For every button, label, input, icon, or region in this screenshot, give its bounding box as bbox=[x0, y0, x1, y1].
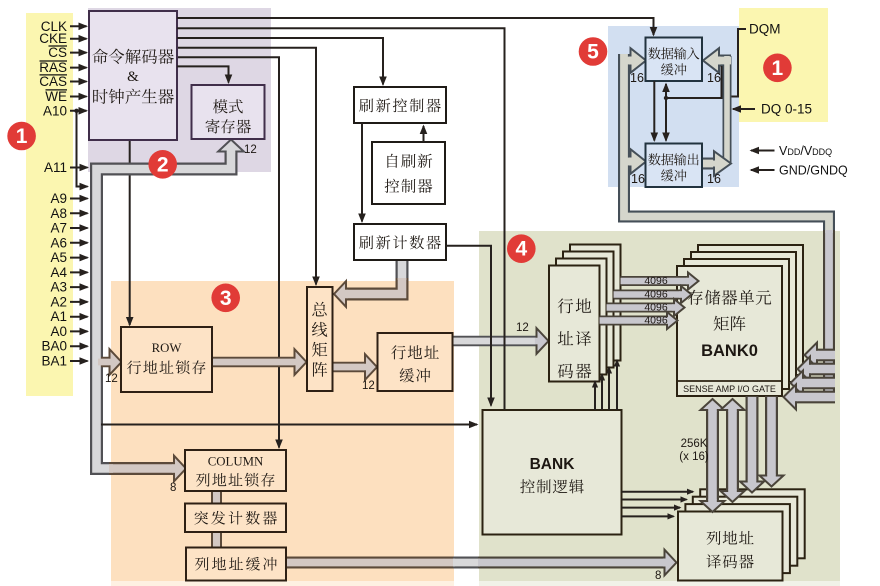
node: red badge 3 bbox=[211, 284, 240, 313]
svg-text:A1: A1 bbox=[50, 309, 67, 324]
arrowhead: bus into COLUMN latch, 8 bits bbox=[174, 456, 186, 482]
wire: refresh counter to bank control logic bbox=[446, 246, 491, 406]
svg-text:12: 12 bbox=[244, 144, 257, 156]
wire: 4096-bit row lines decoder->bank (x4) bbox=[621, 276, 690, 286]
block U3: refresh controller bbox=[354, 87, 446, 123]
wire: decoder output 2 to bank control logic bbox=[177, 28, 505, 409]
text U2 line1 bbox=[213, 99, 243, 113]
region 3: orange address latch zone bbox=[111, 281, 454, 581]
svg-text:RAS: RAS bbox=[39, 60, 67, 75]
svg-text:1: 1 bbox=[16, 125, 28, 148]
svg-text:12: 12 bbox=[516, 322, 529, 334]
svg-text:8: 8 bbox=[655, 570, 661, 582]
wire: thick address/data buses (light core pass) bbox=[97, 146, 232, 469]
wire: data input buffer to data output buffer (left) bbox=[653, 81, 655, 141]
node: A10 branch to address bus bbox=[77, 111, 88, 187]
svg-text:BANK: BANK bbox=[530, 456, 576, 473]
wire: refresh controller to refresh counter bbox=[361, 123, 363, 222]
block U16: data input buffer bbox=[646, 38, 703, 82]
svg-text:ROW: ROW bbox=[152, 341, 183, 355]
svg-text:DQM: DQM bbox=[749, 22, 781, 37]
block U10: burst counter bbox=[185, 504, 286, 533]
text U17 line2 bbox=[661, 169, 686, 181]
svg-text:A11: A11 bbox=[44, 160, 67, 175]
arrowhead: bus into mode register bbox=[218, 140, 244, 152]
wire: inter-buffer double arrow bbox=[665, 84, 667, 141]
wire: decoder output 6 to mode register bbox=[177, 66, 229, 82]
svg-text:16: 16 bbox=[707, 172, 721, 186]
arrowhead: DQ bus into data input buffer (from DQ pads) bbox=[703, 48, 719, 73]
text U13 line2 bbox=[714, 316, 746, 331]
text U9 line2 bbox=[196, 473, 274, 487]
svg-text:16: 16 bbox=[707, 71, 721, 85]
region: yellow control/address pin strip (1) bbox=[26, 13, 73, 396]
arrowhead: ROW latch into bus matrix bbox=[295, 349, 307, 375]
legend arrow: VDD/VDDQ bbox=[751, 150, 775, 152]
wire: self-refresh controller to refresh controller bbox=[423, 126, 425, 142]
legend arrow: GND/GNDQ bbox=[751, 169, 775, 171]
arrowhead: bus matrix into row address buffer bbox=[365, 354, 377, 380]
text U17 line1 bbox=[648, 153, 698, 165]
wire: DQM input trace bbox=[732, 29, 747, 97]
svg-text:A6: A6 bbox=[50, 235, 67, 250]
arrowhead: column addr buffer into column decoder, 8 bbox=[665, 550, 677, 576]
region 5: blue data I/O buffer zone bbox=[608, 26, 739, 187]
node: red badge 2 bbox=[148, 150, 177, 179]
svg-text:COLUMN: COLUMN bbox=[208, 455, 263, 469]
svg-text:A4: A4 bbox=[50, 265, 67, 280]
block U15: column address decoder (stack of 4) bbox=[700, 489, 805, 558]
text U1: command decoder line1 bbox=[92, 49, 174, 64]
wire: thick address/data buses (dark outline pass) bbox=[97, 146, 232, 469]
text U13 line1 bbox=[688, 290, 771, 305]
region: yellow DQ pad zone (1) bbox=[739, 8, 828, 122]
region 2: purple command decoder zone bbox=[88, 8, 271, 172]
svg-text:BA1: BA1 bbox=[41, 354, 67, 369]
wire: address bus to bank control logic (long horizontal) bbox=[101, 424, 477, 426]
svg-text:VDD/VDDQ: VDD/VDDQ bbox=[779, 144, 832, 158]
block U14: BANK control logic bbox=[483, 410, 622, 535]
arrowhead: data bus into data input buffer bbox=[631, 48, 647, 73]
block U5: refresh counter bbox=[354, 224, 446, 260]
text U4 line2 bbox=[385, 179, 433, 193]
svg-text:A10: A10 bbox=[43, 103, 67, 118]
block U9: COLUMN address latch bbox=[185, 450, 286, 491]
block U6: bus matrix bbox=[307, 287, 333, 391]
svg-text:3: 3 bbox=[220, 287, 232, 310]
text U8 line1 bbox=[391, 345, 439, 359]
svg-text:(x 16): (x 16) bbox=[679, 451, 709, 463]
text U16 line2 bbox=[661, 63, 686, 75]
text U14 line2 bbox=[520, 479, 584, 493]
arrowhead: data bus into data output buffer bbox=[631, 149, 647, 174]
block U12: row address decoder (stack of 4) bbox=[570, 245, 621, 361]
svg-text:12: 12 bbox=[362, 380, 375, 392]
node: red badge 1 bbox=[7, 122, 36, 151]
wire: DQ 0-15 pad connection bbox=[733, 108, 755, 110]
wire: decoder output 1 to data input buffer bbox=[177, 18, 654, 35]
region 4: green bank/memory zone bbox=[479, 231, 840, 581]
text U16 line1 bbox=[648, 47, 699, 59]
node: red badge 4 bbox=[507, 234, 536, 263]
node: red badge 5 bbox=[579, 37, 608, 66]
wire: mask line to data buffers bbox=[666, 66, 722, 98]
block U17: data output buffer bbox=[646, 144, 703, 188]
text U6 vertical bbox=[312, 302, 327, 377]
svg-text:256K: 256K bbox=[681, 438, 708, 450]
op block U1: command decoder & clock generator bbox=[89, 11, 177, 140]
svg-text:2: 2 bbox=[157, 153, 169, 176]
svg-text:4: 4 bbox=[515, 238, 527, 261]
svg-text:12: 12 bbox=[105, 373, 118, 385]
svg-text:A8: A8 bbox=[50, 206, 67, 221]
text U8 line2 bbox=[400, 368, 431, 382]
wire: decoder output 4 to bus matrix bbox=[177, 48, 316, 285]
arrowhead: row buffer into row decoder, 12 bbox=[537, 328, 549, 354]
arrowhead: bus into ROW latch, 12 bits bbox=[110, 349, 122, 375]
svg-text:SENSE AMP I/O GATE: SENSE AMP I/O GATE bbox=[683, 384, 776, 394]
svg-text:4096: 4096 bbox=[644, 301, 668, 313]
svg-text:A0: A0 bbox=[50, 324, 67, 339]
svg-text:A3: A3 bbox=[50, 280, 67, 295]
svg-text:A5: A5 bbox=[50, 250, 67, 265]
svg-text:CAS: CAS bbox=[39, 74, 67, 89]
svg-text:WE: WE bbox=[45, 89, 67, 104]
wire: sense-amp to column decoder data arrows (x4) bbox=[706, 409, 719, 502]
text U10 bbox=[194, 511, 277, 525]
svg-text:1: 1 bbox=[772, 57, 784, 80]
svg-text:4096: 4096 bbox=[644, 275, 668, 287]
arrowhead: data output buffer onto DQ bus bbox=[714, 151, 731, 176]
text U1: clock generator line2 bbox=[93, 89, 174, 104]
text U15 line1 bbox=[706, 531, 753, 545]
text U2 line2 bbox=[206, 119, 251, 134]
svg-text:CS: CS bbox=[48, 45, 67, 60]
wire: DQ bus cascade arrows into BANK0 stack right (x4) bbox=[815, 349, 836, 362]
block U11: column address buffer bbox=[186, 548, 286, 581]
svg-text:GND/GNDQ: GND/GNDQ bbox=[779, 164, 848, 178]
svg-text:&: & bbox=[127, 69, 139, 85]
svg-text:BANK0: BANK0 bbox=[701, 342, 758, 360]
block U4: self-refresh controller bbox=[372, 142, 445, 204]
block U7: ROW address latch bbox=[121, 327, 212, 392]
sense amp I/O gate divider bbox=[677, 380, 782, 382]
text U15 line2 bbox=[706, 554, 753, 568]
op block U2: mode register bbox=[192, 85, 265, 139]
svg-text:5: 5 bbox=[587, 41, 599, 64]
block U8: row address buffer bbox=[378, 333, 453, 391]
svg-text:CKE: CKE bbox=[39, 31, 67, 46]
node: junction on buffer control line bbox=[664, 96, 668, 100]
svg-text:16: 16 bbox=[630, 71, 644, 85]
wire: decoder output 5 to COLUMN latch bbox=[177, 57, 279, 447]
svg-text:A9: A9 bbox=[50, 191, 67, 206]
text U12 line3 bbox=[558, 364, 592, 379]
text U11 bbox=[195, 557, 277, 571]
wire: bank control to row decoder selects (x4) bbox=[594, 382, 596, 411]
svg-text:4096: 4096 bbox=[644, 314, 668, 326]
svg-text:16: 16 bbox=[631, 172, 645, 186]
block U13: memory cell matrix BANK0 with sense amp strip (stack of 4) bbox=[698, 245, 803, 375]
arrowhead: refresh counter into bus matrix bbox=[334, 281, 346, 307]
node: red badge 1 bbox=[763, 54, 792, 83]
text U12 line2 bbox=[558, 331, 592, 346]
text U4 line1 bbox=[387, 154, 432, 168]
wire: decoder output 3 to refresh controller bbox=[177, 38, 383, 85]
svg-text:BA0: BA0 bbox=[41, 339, 67, 354]
svg-text:A7: A7 bbox=[50, 221, 67, 236]
wire: command decoder bottom to ROW latch (under bus) bbox=[129, 140, 131, 325]
text U12 line1 bbox=[558, 298, 591, 313]
svg-text:8: 8 bbox=[170, 482, 176, 494]
svg-text:4096: 4096 bbox=[644, 288, 668, 300]
text U3 bbox=[359, 98, 441, 112]
svg-text:A2: A2 bbox=[50, 294, 67, 309]
wire: bank control to column decoder selects (x4) bbox=[622, 491, 694, 493]
region bottom fade strips bbox=[111, 581, 454, 586]
text U5 bbox=[359, 235, 441, 249]
text U7 line2 bbox=[127, 360, 205, 374]
svg-text:DQ 0-15: DQ 0-15 bbox=[761, 102, 812, 117]
